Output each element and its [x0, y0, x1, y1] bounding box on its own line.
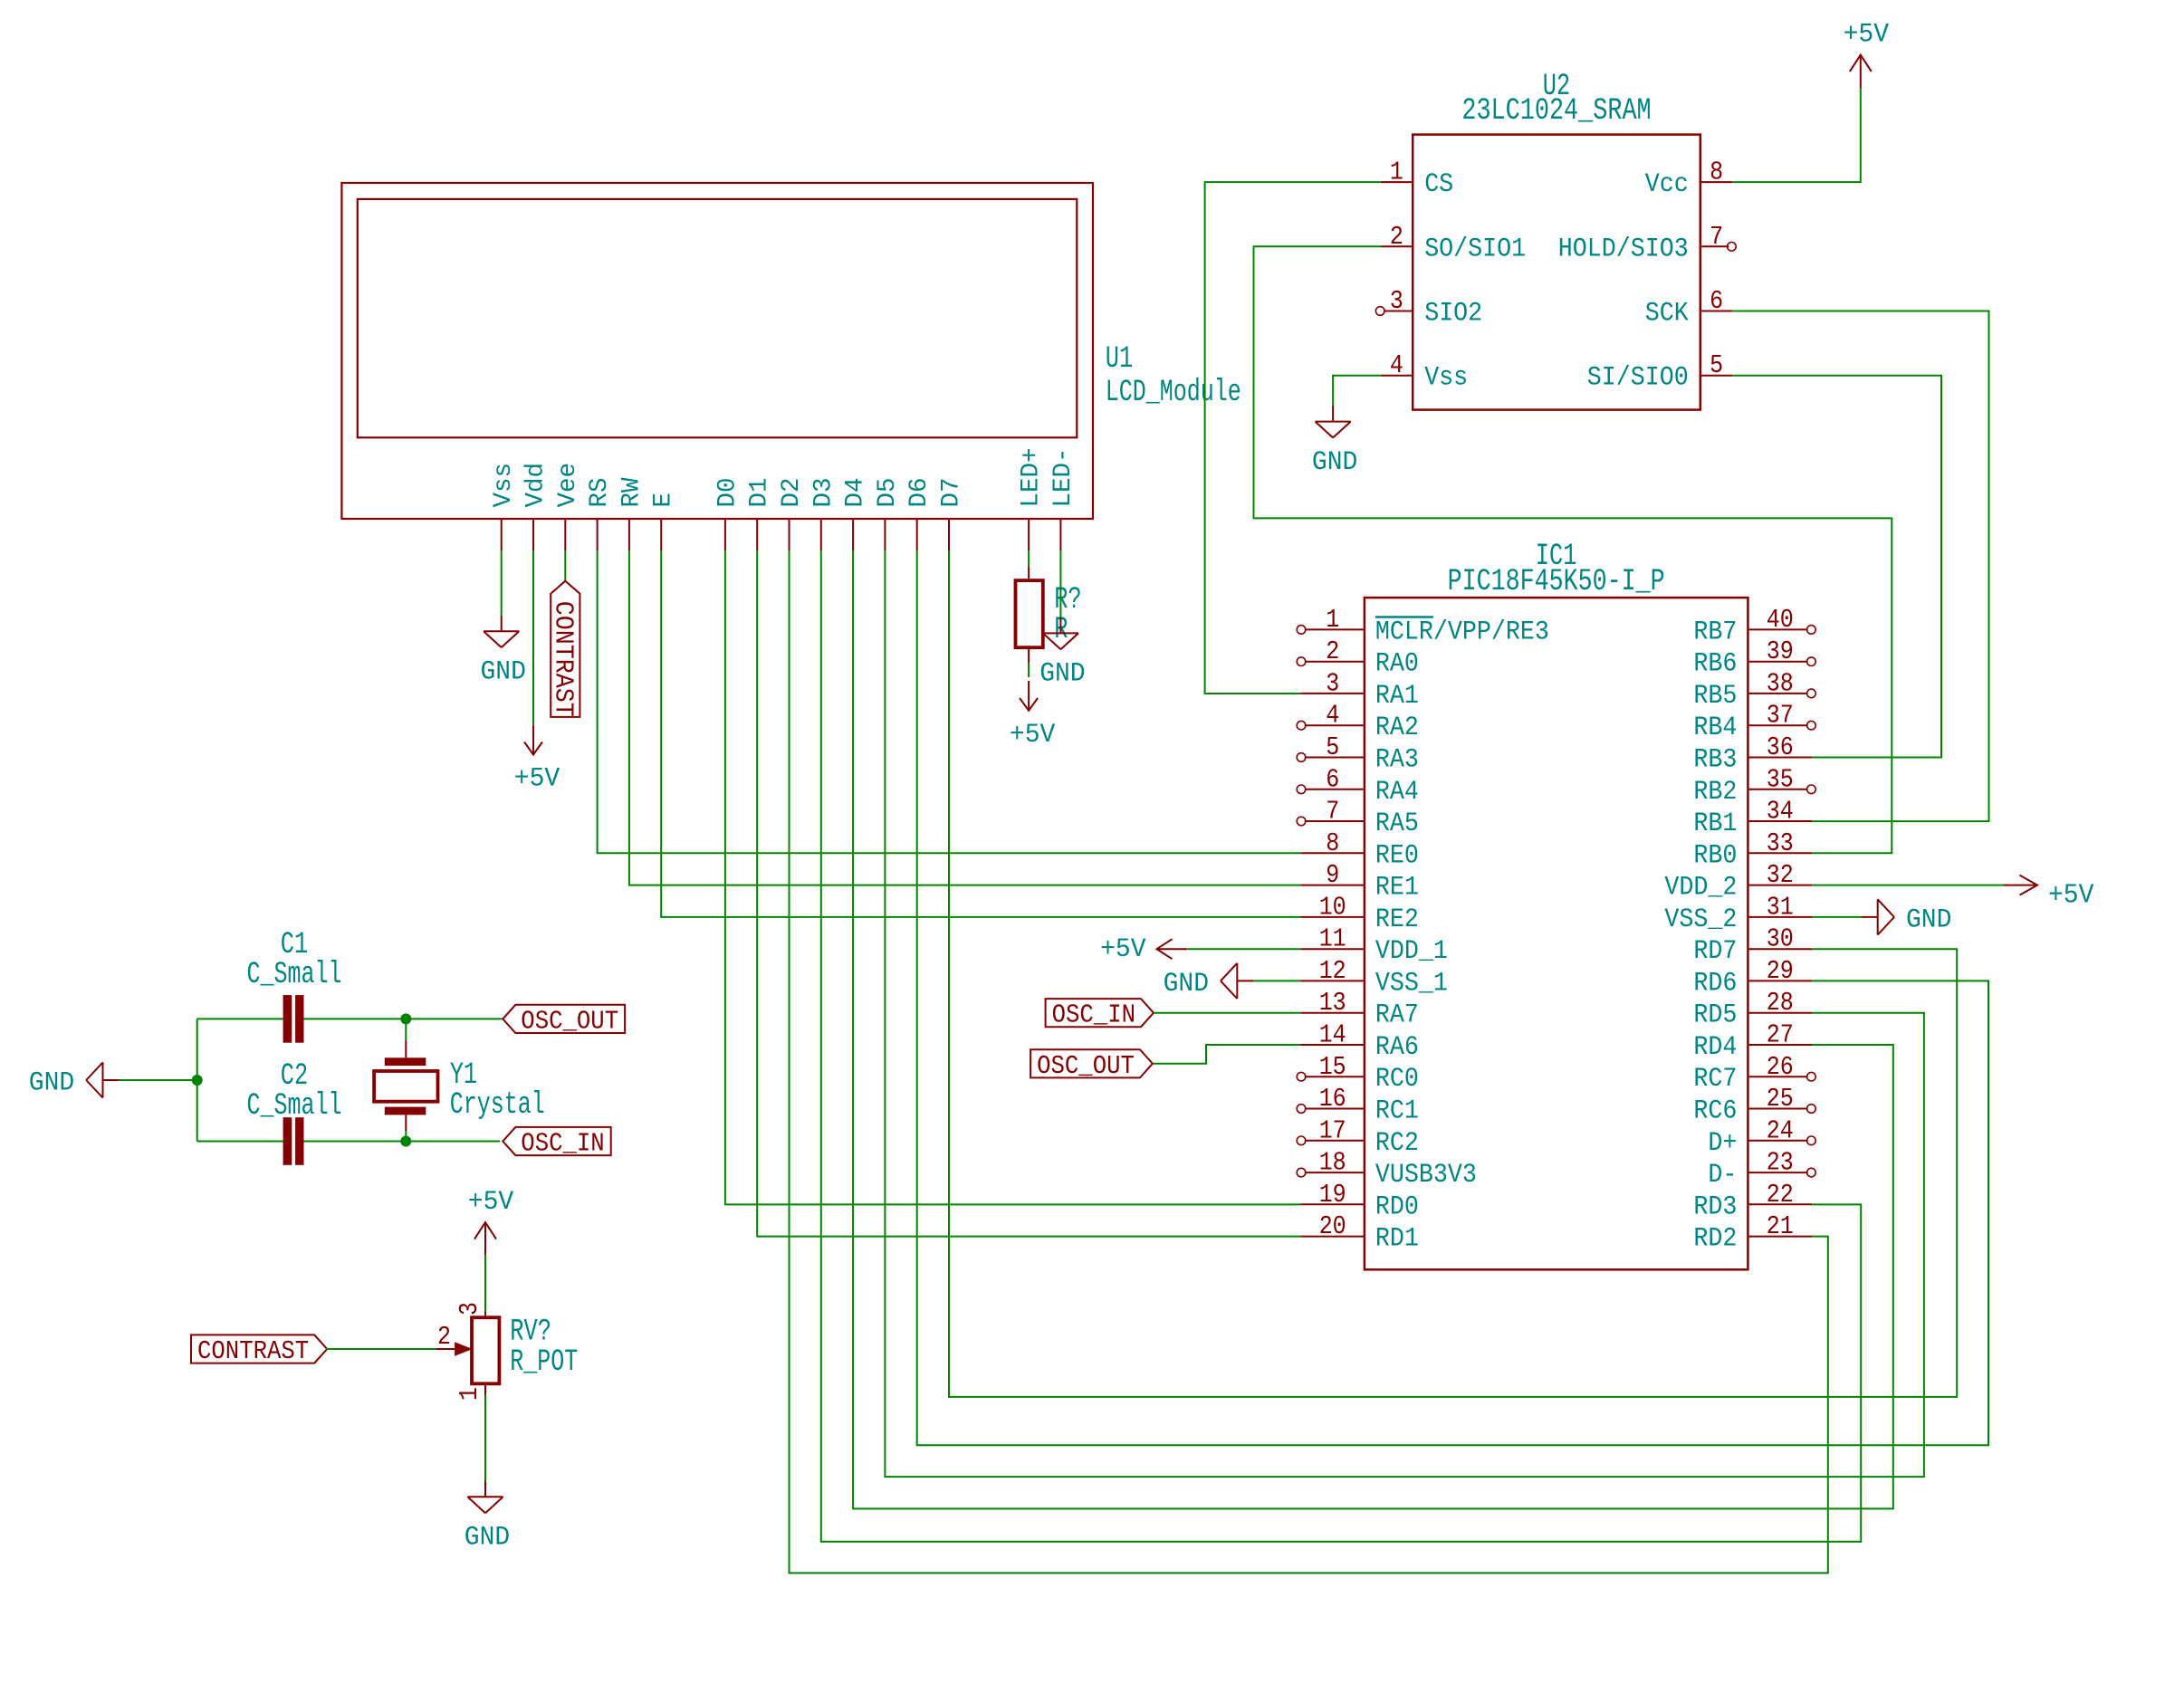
svg-text:9: 9: [1326, 860, 1339, 890]
svg-text:27: 27: [1767, 1020, 1794, 1050]
svg-text:RC0: RC0: [1375, 1064, 1419, 1095]
svg-text:RS: RS: [586, 478, 614, 508]
svg-text:PIC18F45K50-I_P: PIC18F45K50-I_P: [1448, 565, 1665, 599]
svg-text:15: 15: [1319, 1052, 1346, 1082]
svg-text:RB1: RB1: [1693, 809, 1737, 839]
svg-text:RC1: RC1: [1375, 1096, 1419, 1127]
svg-text:LED+: LED+: [1018, 448, 1046, 508]
svg-text:VDD_1: VDD_1: [1375, 936, 1448, 967]
svg-text:U1: U1: [1106, 342, 1133, 377]
svg-text:GND: GND: [1164, 969, 1209, 1000]
svg-text:RD3: RD3: [1693, 1191, 1737, 1222]
svg-text:17: 17: [1319, 1115, 1346, 1145]
svg-text:Crystal: Crystal: [450, 1088, 545, 1123]
svg-text:RD7: RD7: [1693, 936, 1737, 967]
svg-text:RD6: RD6: [1693, 968, 1737, 999]
svg-text:35: 35: [1767, 764, 1794, 794]
svg-text:+5V: +5V: [1010, 720, 1055, 751]
svg-text:23LC1024_SRAM: 23LC1024_SRAM: [1461, 94, 1651, 129]
svg-text:OSC_OUT: OSC_OUT: [521, 1006, 618, 1036]
svg-text:+5V: +5V: [2048, 880, 2094, 912]
svg-text:21: 21: [1767, 1211, 1794, 1241]
svg-text:LCD_Module: LCD_Module: [1106, 376, 1241, 410]
svg-text:RB0: RB0: [1693, 840, 1737, 871]
svg-text:+5V: +5V: [468, 1187, 513, 1218]
svg-text:RD5: RD5: [1693, 1000, 1737, 1031]
svg-text:+5V: +5V: [1844, 20, 1889, 51]
svg-text:7: 7: [1326, 797, 1339, 827]
svg-text:RA3: RA3: [1375, 745, 1419, 776]
svg-text:D1: D1: [746, 478, 774, 508]
svg-text:5: 5: [1326, 732, 1339, 762]
svg-text:Vee: Vee: [554, 463, 582, 508]
svg-text:2: 2: [437, 1322, 451, 1352]
svg-text:8: 8: [1326, 828, 1339, 858]
svg-text:RA5: RA5: [1375, 809, 1419, 839]
svg-text:34: 34: [1767, 797, 1794, 827]
svg-text:VSS_2: VSS_2: [1664, 904, 1737, 935]
svg-text:D2: D2: [778, 478, 806, 508]
svg-text:RD4: RD4: [1693, 1032, 1737, 1063]
svg-text:D+: D+: [1708, 1128, 1737, 1159]
svg-text:GND: GND: [481, 657, 526, 688]
svg-text:D4: D4: [842, 478, 870, 508]
svg-text:2: 2: [1390, 222, 1403, 252]
svg-text:36: 36: [1767, 732, 1794, 762]
svg-text:8: 8: [1710, 158, 1723, 187]
svg-text:RC6: RC6: [1693, 1096, 1737, 1127]
svg-text:SIO2: SIO2: [1424, 299, 1482, 330]
svg-text:HOLD/SIO3: HOLD/SIO3: [1558, 234, 1689, 264]
svg-text:40: 40: [1767, 605, 1794, 635]
svg-text:16: 16: [1319, 1084, 1346, 1114]
svg-text:RD0: RD0: [1375, 1191, 1419, 1222]
svg-text:3: 3: [1326, 668, 1339, 698]
svg-text:MCLR/VPP/RE3: MCLR/VPP/RE3: [1375, 617, 1549, 647]
svg-text:VUSB3V3: VUSB3V3: [1375, 1160, 1477, 1191]
svg-text:7: 7: [1710, 222, 1723, 252]
svg-text:4: 4: [1326, 701, 1339, 731]
svg-text:32: 32: [1767, 860, 1794, 890]
svg-text:RC7: RC7: [1693, 1064, 1737, 1095]
svg-text:RE0: RE0: [1375, 840, 1419, 871]
svg-text:+5V: +5V: [1100, 934, 1145, 965]
svg-text:C_Small: C_Small: [247, 958, 342, 992]
svg-text:38: 38: [1767, 668, 1794, 698]
svg-text:+5V: +5V: [514, 764, 560, 795]
svg-text:R_POT: R_POT: [510, 1345, 578, 1380]
svg-text:3: 3: [1390, 286, 1403, 316]
svg-text:22: 22: [1767, 1180, 1794, 1210]
svg-text:6: 6: [1326, 764, 1339, 794]
svg-text:GND: GND: [1039, 659, 1085, 690]
svg-text:RE2: RE2: [1375, 904, 1419, 935]
svg-text:GND: GND: [1312, 447, 1357, 478]
svg-text:24: 24: [1767, 1115, 1794, 1145]
svg-text:23: 23: [1767, 1148, 1794, 1178]
svg-text:CONTRAST: CONTRAST: [197, 1336, 309, 1366]
svg-text:D-: D-: [1708, 1160, 1737, 1191]
svg-text:10: 10: [1319, 892, 1346, 922]
svg-text:39: 39: [1767, 636, 1794, 666]
svg-text:CONTRAST: CONTRAST: [548, 601, 578, 717]
svg-text:RA2: RA2: [1375, 713, 1419, 743]
svg-text:14: 14: [1319, 1020, 1346, 1050]
svg-text:RE1: RE1: [1375, 873, 1419, 904]
svg-text:5: 5: [1710, 350, 1723, 380]
svg-text:VDD_2: VDD_2: [1664, 873, 1737, 904]
svg-text:OSC_IN: OSC_IN: [1052, 1000, 1135, 1030]
svg-text:1: 1: [1390, 158, 1403, 187]
svg-text:RB7: RB7: [1693, 617, 1737, 647]
svg-text:D5: D5: [874, 478, 902, 508]
svg-text:RB2: RB2: [1693, 777, 1737, 808]
svg-text:20: 20: [1319, 1211, 1346, 1241]
svg-text:GND: GND: [29, 1068, 74, 1099]
svg-text:C_Small: C_Small: [247, 1089, 342, 1124]
svg-text:D0: D0: [714, 478, 742, 508]
svg-text:12: 12: [1319, 956, 1346, 986]
svg-text:D3: D3: [809, 478, 838, 508]
svg-text:VSS_1: VSS_1: [1375, 968, 1448, 999]
svg-text:RD2: RD2: [1693, 1224, 1737, 1255]
svg-text:RB5: RB5: [1693, 681, 1737, 712]
svg-text:RB6: RB6: [1693, 649, 1737, 680]
svg-text:4: 4: [1390, 350, 1403, 380]
svg-text:SCK: SCK: [1645, 299, 1689, 330]
svg-text:RC2: RC2: [1375, 1128, 1419, 1159]
svg-text:SO/SIO1: SO/SIO1: [1424, 234, 1526, 264]
svg-text:18: 18: [1319, 1148, 1346, 1178]
svg-text:RW: RW: [618, 477, 646, 507]
svg-text:E: E: [650, 493, 678, 508]
svg-text:11: 11: [1319, 924, 1346, 954]
svg-text:RA0: RA0: [1375, 649, 1419, 680]
svg-text:LED-: LED-: [1049, 448, 1078, 508]
svg-text:RA4: RA4: [1375, 777, 1419, 808]
svg-text:28: 28: [1767, 988, 1794, 1018]
svg-text:13: 13: [1319, 988, 1346, 1018]
svg-text:SI/SIO0: SI/SIO0: [1587, 363, 1689, 394]
svg-text:Vss: Vss: [490, 463, 518, 508]
svg-text:Vss: Vss: [1424, 363, 1468, 394]
svg-text:RB3: RB3: [1693, 745, 1737, 776]
svg-text:37: 37: [1767, 701, 1794, 731]
svg-text:30: 30: [1767, 924, 1794, 954]
svg-text:1: 1: [1326, 605, 1339, 635]
svg-text:GND: GND: [465, 1523, 510, 1554]
svg-text:RA1: RA1: [1375, 681, 1419, 712]
svg-text:RA6: RA6: [1375, 1032, 1419, 1063]
svg-text:Vdd: Vdd: [522, 463, 551, 508]
svg-text:OSC_OUT: OSC_OUT: [1037, 1051, 1135, 1081]
svg-text:RD1: RD1: [1375, 1224, 1419, 1255]
svg-text:D7: D7: [938, 478, 966, 508]
svg-text:6: 6: [1710, 286, 1723, 316]
svg-text:RB4: RB4: [1693, 713, 1737, 743]
svg-text:19: 19: [1319, 1180, 1346, 1210]
svg-text:25: 25: [1767, 1084, 1794, 1114]
svg-text:3: 3: [455, 1302, 484, 1316]
svg-text:29: 29: [1767, 956, 1794, 986]
svg-text:OSC_IN: OSC_IN: [521, 1129, 604, 1159]
svg-text:1: 1: [455, 1387, 484, 1401]
svg-text:Vcc: Vcc: [1645, 169, 1689, 200]
svg-text:D6: D6: [905, 478, 934, 508]
svg-text:CS: CS: [1424, 169, 1453, 200]
svg-text:26: 26: [1767, 1052, 1794, 1082]
svg-text:GND: GND: [1906, 904, 1951, 935]
svg-text:31: 31: [1767, 892, 1794, 922]
svg-text:RA7: RA7: [1375, 1000, 1419, 1031]
svg-text:RV?: RV?: [510, 1316, 551, 1350]
svg-text:2: 2: [1326, 636, 1339, 666]
svg-text:33: 33: [1767, 828, 1794, 858]
